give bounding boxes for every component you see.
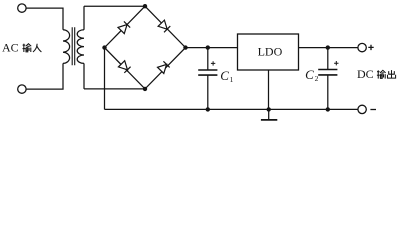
svg-text:2: 2 — [315, 74, 319, 83]
svg-text:AC: AC — [2, 41, 19, 55]
svg-text:C: C — [305, 67, 314, 82]
svg-text:LDO: LDO — [258, 45, 283, 59]
svg-text:1: 1 — [230, 75, 234, 84]
svg-text:C: C — [220, 68, 229, 83]
svg-text:DC: DC — [357, 67, 374, 81]
